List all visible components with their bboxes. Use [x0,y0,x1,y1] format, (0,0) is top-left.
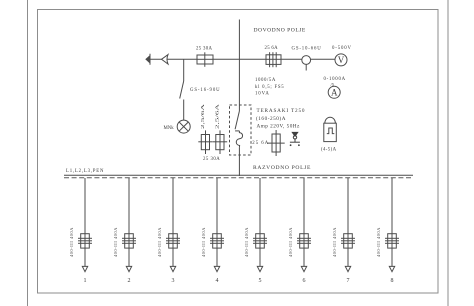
feeder 1 outgoing arrow [82,266,87,271]
svg-text:5: 5 [259,278,262,284]
svg-text:1000/5A: 1000/5A [255,78,276,83]
svg-text:MNk: MNk [164,126,175,131]
feeder 5 fuse-switch 400A [253,234,267,248]
voltmeter V [335,54,347,66]
wire: selector to voltmeter [311,58,336,60]
breaker Q1 contact and release [235,111,242,148]
feeder 7 fuse-switch 400A [341,234,355,248]
svg-text:V: V [338,55,345,65]
breaker Q1 TERASAKI dashed box [230,105,252,155]
feeder 4 wire [216,178,218,266]
feeder 5 wire [259,178,261,266]
svg-text:A: A [331,88,338,98]
wire: main riser upper [238,20,240,112]
wire: riser lower [238,148,240,176]
fuse F4 25/6A [268,130,285,156]
feeder 8 wire [391,178,393,266]
fuse F1 25/30A [197,52,213,67]
feeder 4 fuse-switch 400A [210,234,224,248]
svg-text:DOVODNO POLJE: DOVODNO POLJE [254,27,306,33]
svg-text:25 6A: 25 6A [252,141,269,146]
wire: main horizontal bus [150,58,303,60]
wire: lamp branch [183,59,185,81]
current transformer T1 [266,52,281,67]
sheet edge left [27,0,29,306]
svg-text:400-III 400A: 400-III 400A [376,227,381,257]
feeder 6 outgoing arrow [301,266,306,271]
label CT data [255,78,284,97]
svg-text:3: 3 [172,278,175,284]
feeder 2 fuse-switch 400A [122,234,136,248]
svg-text:RAZVODNO POLJE: RAZVODNO POLJE [253,165,311,171]
svg-text:400-III 400A: 400-III 400A [332,227,337,257]
drawing frame [38,10,439,294]
svg-text:25 30A: 25 30A [203,157,220,162]
feeder 6 wire [303,178,305,266]
sheet edge right [447,0,449,306]
svg-text:0-500V: 0-500V [332,46,352,51]
svg-text:kl 0,5; FS5: kl 0,5; FS5 [255,85,284,90]
feeder 1 wire [84,178,86,266]
svg-text:400-III 400A: 400-III 400A [113,227,118,257]
svg-text:10VA: 10VA [255,92,270,97]
feeder 8 fuse-switch 400A [385,234,399,248]
svg-text:400-III 400A: 400-III 400A [157,227,162,257]
svg-text:2: 2 [128,278,131,284]
svg-text:Amp 220V, 50Hz: Amp 220V, 50Hz [257,124,301,130]
feeder 8 outgoing arrow [389,266,394,271]
node: incoming supply arrow [146,54,168,65]
switch GS-16-90U [180,81,184,120]
busbar solid [64,174,413,176]
feeder 3 fuse-switch 400A [166,234,180,248]
feeder 6 fuse-switch 400A [297,234,311,248]
svg-text:(4-5)A: (4-5)A [321,148,337,153]
svg-text:6: 6 [303,278,306,284]
svg-text:1: 1 [84,278,87,284]
control fuse F3 [213,130,227,154]
svg-text:25 30A: 25 30A [196,47,213,52]
svg-text:L1,L2,L3,PEN: L1,L2,L3,PEN [66,169,104,174]
lamp H1 [177,120,190,133]
feeder 2 outgoing arrow [126,266,131,271]
svg-text:7: 7 [347,278,350,284]
svg-text:8: 8 [391,278,394,284]
feeder 5 outgoing arrow [257,266,262,271]
feeder 2 wire [128,178,130,266]
feeder 1 fuse-switch 400A [78,234,92,248]
meter P1 (impulse device) [324,117,337,141]
selector switch GS-10-66U [302,56,311,71]
svg-text:GS-10-66U: GS-10-66U [292,46,322,51]
feeder 7 outgoing arrow [345,266,350,271]
svg-text:GS-16-90U: GS-16-90U [190,88,221,93]
ammeter A [328,86,340,98]
control fuse F2 [198,130,212,154]
svg-text:400-III 400A: 400-III 400A [201,227,206,257]
svg-text:400-III 400A: 400-III 400A [244,227,249,257]
svg-text:25 6A: 25 6A [265,46,279,51]
svg-text:400-III 400A: 400-III 400A [69,227,74,257]
svg-text:TERASAKI T250: TERASAKI T250 [257,108,306,114]
svg-text:(160-250)A: (160-250)A [256,115,286,122]
feeder 4 outgoing arrow [214,266,219,271]
feeder 3 wire [172,178,174,266]
socket X1 [290,132,300,146]
busbar PEN dashed [64,177,413,179]
svg-text:4: 4 [216,278,219,284]
feeder 3 outgoing arrow [170,266,175,271]
svg-text:0-1000A: 0-1000A [324,77,346,82]
svg-text:400-III 400A: 400-III 400A [288,227,293,257]
feeder 7 wire [347,178,349,266]
label TERASAKI [256,108,305,130]
